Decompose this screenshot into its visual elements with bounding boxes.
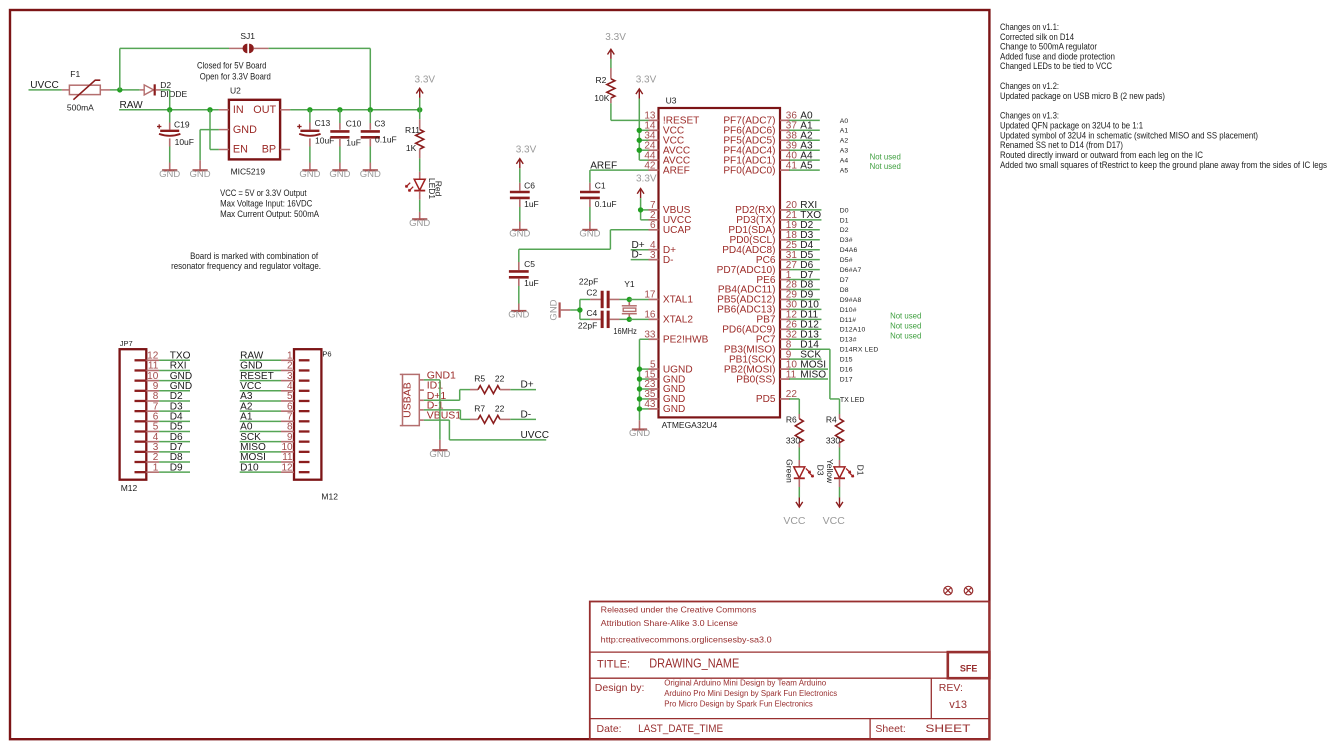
svg-text:Design by:: Design by: (595, 682, 645, 694)
U3 pin 22 PD5 (756, 389, 798, 405)
net label A4 on pin 40 (789, 150, 820, 161)
U3 pin 11 PB0(SS) (736, 369, 796, 385)
svg-text:C4: C4 (586, 308, 597, 318)
svg-text:D10: D10 (240, 462, 259, 473)
svg-text:500mA: 500mA (67, 102, 94, 112)
net label D5 on pin 31 (789, 250, 820, 261)
supply 3.3V above R11 (415, 74, 436, 110)
svg-text:D13#: D13# (840, 337, 857, 344)
svg-text:REV:: REV: (939, 682, 963, 694)
svg-text:Arduino Pro Mini Design by Spa: Arduino Pro Mini Design by Spark Fun Ele… (664, 689, 837, 698)
note closed/open for board voltage (197, 60, 271, 81)
svg-text:3.3V: 3.3V (605, 32, 626, 43)
svg-text:12: 12 (281, 462, 293, 473)
net label D6 on pin 27 (789, 260, 820, 271)
junction VBUS pin 7 (638, 207, 643, 212)
svg-text:VCC = 5V or 3.3V Output: VCC = 5V or 3.3V Output (220, 188, 307, 198)
svg-text:GND: GND (409, 218, 430, 229)
MCU U3 ATMEGA32U4 (659, 95, 781, 430)
svg-text:Changed LEDs to be tied to VCC: Changed LEDs to be tied to VCC (1000, 60, 1112, 71)
net label MISO on pin 11 (789, 369, 828, 380)
svg-text:Y1: Y1 (624, 279, 635, 289)
signal note D14RX LED (840, 347, 879, 354)
supply 3.3V above VCC pins (636, 74, 657, 98)
JP7 pin 11 net RXI (135, 361, 191, 372)
title text (597, 657, 739, 671)
wire XTAL2 to pin 16 (629, 318, 648, 320)
signal note D13# (840, 337, 857, 344)
ground U2 (190, 169, 211, 180)
JP7 pin 6 net D4 (135, 412, 191, 423)
net label RXI on pin 20 (789, 200, 821, 211)
svg-text:Attribution Share-Alike 3.0 Li: Attribution Share-Alike 3.0 License (601, 618, 738, 628)
U3 pin 32 PC7 (756, 329, 798, 345)
svg-text:D1: D1 (840, 217, 849, 224)
svg-text:Green: Green (784, 459, 794, 483)
U3 pin 8 PB3(MISO) (724, 339, 792, 355)
wire GND1 to ground (424, 380, 440, 450)
wire junction up to SJ1 row (120, 48, 229, 90)
svg-text:3: 3 (650, 250, 656, 261)
regulator U2 MIC5219 (219, 86, 290, 177)
svg-text:D-: D- (663, 255, 674, 266)
svg-text:GND: GND (159, 169, 180, 180)
svg-text:A5: A5 (840, 168, 849, 175)
wire VBUS1 to UVCC (424, 420, 546, 440)
P6 pin 6 net A2 (240, 401, 310, 412)
svg-text:PD5: PD5 (756, 394, 776, 405)
supply VCC below D3 (783, 498, 806, 527)
resistor R11 1K (405, 110, 424, 172)
svg-text:22: 22 (495, 374, 505, 384)
signal note D3# (840, 237, 853, 244)
P6 pin 10 net MISO (240, 442, 310, 453)
svg-text:AREF: AREF (663, 165, 690, 176)
USBAB pin D-1 (419, 399, 443, 411)
U3 pin 38 PF5(ADC5) (723, 130, 797, 146)
net label D11 on pin 12 (789, 310, 821, 321)
svg-text:1uF: 1uF (524, 199, 539, 209)
svg-text:C5: C5 (524, 259, 535, 269)
svg-text:U2: U2 (230, 86, 241, 96)
svg-text:D8: D8 (840, 287, 849, 294)
resistor R5 22 (470, 374, 510, 394)
U3 pin 16 XTAL2 (644, 310, 693, 326)
svg-text:Not used: Not used (870, 152, 901, 161)
svg-text:GND: GND (360, 169, 381, 180)
net label D8 on pin 28 (789, 280, 820, 291)
svg-text:A1: A1 (840, 128, 849, 135)
wire PD5 pin 22 to R6 (789, 399, 799, 414)
svg-text:Board is marked with combinati: Board is marked with combination of (190, 251, 318, 261)
svg-text:42: 42 (644, 160, 656, 171)
svg-text:ATMEGA32U4: ATMEGA32U4 (662, 420, 718, 430)
svg-text:D0: D0 (840, 207, 849, 214)
junction GND pin 23 (637, 386, 642, 391)
note Not used (870, 162, 901, 171)
junction F1/D2/SJ1 (117, 87, 122, 92)
svg-text:43: 43 (644, 399, 656, 410)
net label TXO on pin 21 (789, 210, 821, 221)
svg-text:USBAB: USBAB (402, 382, 414, 418)
signal note A0 (840, 118, 849, 125)
ground LED1 (409, 218, 430, 229)
wire PE2!HWB and GND pins to ground (640, 339, 649, 429)
svg-text:R7: R7 (474, 404, 485, 414)
title block (590, 602, 990, 740)
svg-text:Pro Micro Design by Spark Fun: Pro Micro Design by Spark Fun Electronic… (664, 700, 813, 709)
note Not used (870, 152, 901, 161)
wire XTAL1 to pin 17 (629, 298, 648, 300)
resistor R6 330 (786, 414, 803, 448)
wire F1 to junction (110, 89, 140, 91)
net label D14 on pin 8 (789, 339, 830, 350)
U3 pin 7 VBUS (649, 200, 691, 216)
P6 pin 9 net SCK (240, 432, 310, 443)
svg-text:1K: 1K (406, 143, 417, 153)
net label A0 on pin 36 (789, 111, 820, 122)
svg-text:C6: C6 (524, 180, 535, 190)
svg-text:D17: D17 (840, 376, 853, 383)
P6 pin 1 net RAW (240, 351, 310, 362)
ground C1 (579, 229, 600, 240)
svg-text:SHEET: SHEET (925, 723, 970, 735)
svg-text:GND: GND (299, 169, 320, 180)
junction VCC pin 14 (637, 128, 642, 133)
svg-text:17: 17 (644, 290, 656, 301)
svg-text:10uF: 10uF (175, 137, 194, 147)
svg-text:EN: EN (233, 144, 248, 156)
svg-text:C10: C10 (346, 118, 362, 128)
JP7 pin 5 net D5 (135, 422, 191, 433)
U3 pin 36 PF7(ADC7) (723, 111, 797, 127)
USB connector USBAB (400, 374, 420, 425)
license text (601, 604, 772, 644)
capacitor C19 10uF (157, 110, 194, 170)
U3 pin 39 PF4(ADC4) (723, 140, 797, 156)
U3 pin 3 D- (649, 250, 674, 266)
note revision changes list (1000, 21, 1327, 170)
wire gnd to C2/C4 left plates (570, 299, 590, 319)
svg-text:PE2!HWB: PE2!HWB (663, 334, 709, 345)
svg-text:C1: C1 (595, 180, 606, 190)
net label SCK on pin 9 (789, 349, 821, 360)
schematic frame border (10, 10, 989, 739)
svg-text:22pF: 22pF (579, 277, 598, 287)
svg-text:22pF: 22pF (578, 321, 597, 331)
junction XTAL1/Y1 (627, 297, 632, 302)
svg-text:C3: C3 (374, 118, 385, 128)
USBAB pin ID1 (419, 380, 443, 392)
ground C3 (360, 169, 381, 180)
svg-text:TX LED: TX LED (840, 397, 865, 404)
net label D2 on pin 19 (789, 220, 820, 231)
junction VCC pin 34 (637, 138, 642, 143)
note Not used (890, 311, 921, 320)
svg-text:D16: D16 (840, 367, 853, 374)
svg-text:330: 330 (826, 435, 840, 445)
LED LED1 Red (406, 172, 444, 219)
JP7 pin 3 net D7 (135, 442, 191, 453)
svg-text:D15: D15 (840, 357, 853, 364)
U3 pin 6 UCAP (649, 220, 692, 236)
signal note D15 (840, 357, 853, 364)
wire D14 to TX LED (830, 349, 840, 414)
connector P6 M12 (294, 349, 338, 501)
net label D- at pin 3 (631, 250, 649, 261)
U3 pin 21 PD3(TX) (736, 210, 797, 226)
svg-text:D1: D1 (856, 465, 866, 476)
net label A3 on pin 39 (789, 140, 820, 151)
svg-text:A3: A3 (840, 148, 849, 155)
svg-text:GND: GND (549, 299, 560, 320)
U3 pin 30 PB6(ADC13) (717, 300, 797, 316)
svg-text:Not used: Not used (890, 331, 921, 340)
svg-text:330: 330 (786, 435, 800, 445)
net label UVCC at USB (521, 430, 550, 441)
svg-text:0.1uF: 0.1uF (595, 199, 617, 209)
svg-text:VCC: VCC (783, 515, 806, 527)
note Not used (890, 331, 921, 340)
wire SJ1 to 3.3V rail drop (269, 48, 371, 109)
junction OUT/C13 (307, 107, 312, 112)
svg-text:3.3V: 3.3V (516, 144, 537, 155)
net label MOSI on pin 10 (789, 359, 828, 370)
svg-text:PB0(SS): PB0(SS) (736, 374, 775, 385)
note regulator output (220, 188, 319, 219)
signal note D12A10 (840, 327, 866, 334)
signal note D17 (840, 376, 853, 383)
supply 3.3V above VBUS (636, 174, 657, 199)
svg-text:D6#A7: D6#A7 (840, 267, 862, 274)
signal note D7 (840, 277, 849, 284)
U3 pin 33 PE2!HWB (644, 329, 708, 345)
svg-text:33: 33 (644, 329, 656, 340)
svg-text:D+: D+ (521, 380, 534, 391)
P6 pin 3 net RESET (240, 371, 310, 382)
svg-text:MIC5219: MIC5219 (231, 166, 266, 176)
svg-text:D2: D2 (840, 227, 849, 234)
note Not used (890, 321, 921, 330)
svg-text:16: 16 (644, 310, 656, 321)
capacitor C3 0.1uF (361, 110, 397, 170)
U3 pin 41 PF0(ADC0) (723, 160, 797, 176)
P6 pin 2 net GND (240, 361, 310, 372)
svg-text:DRAWING_NAME: DRAWING_NAME (649, 657, 739, 671)
svg-text:P6: P6 (322, 350, 331, 359)
wire UCAP to C5 (519, 230, 649, 262)
U3 pin 34 VCC (644, 130, 684, 146)
capacitor C1 0.1uF (580, 180, 617, 229)
svg-text:D12A10: D12A10 (840, 327, 866, 334)
U3 pin 31 PC6 (756, 250, 798, 266)
svg-text:R11: R11 (405, 125, 420, 135)
svg-text:OUT: OUT (253, 104, 276, 116)
U3 pin 24 AVCC (644, 140, 690, 156)
svg-text:SFE: SFE (960, 663, 978, 673)
registration mark left (944, 586, 953, 595)
net label AREF (590, 160, 617, 171)
svg-text:3.3V: 3.3V (636, 174, 657, 185)
junction GND pin 35 (637, 396, 642, 401)
wire R2 to !RESET pin 13 (611, 119, 649, 121)
registration mark right (964, 586, 973, 595)
svg-text:D3#: D3# (840, 237, 853, 244)
signal note D9#A8 (840, 297, 862, 304)
ground C13 (299, 169, 320, 180)
U3 pin 1 PE6 (756, 270, 791, 286)
svg-text:C13: C13 (315, 118, 331, 128)
net label A2 on pin 38 (789, 130, 820, 141)
svg-text:Open for 3.3V Board: Open for 3.3V Board (200, 71, 271, 81)
capacitor C10 1uF (330, 110, 361, 170)
net label D4 on pin 25 (789, 240, 820, 251)
ground crystal caps (rotated) (549, 299, 571, 320)
svg-text:A0: A0 (840, 118, 849, 125)
P6 pin 7 net A1 (240, 412, 310, 423)
net label D10 on pin 30 (789, 300, 821, 311)
U3 pin 17 XTAL1 (644, 290, 693, 306)
supply 3.3V above C6 (516, 144, 537, 168)
svg-text:M12: M12 (121, 483, 138, 493)
JP7 pin 8 net D2 (135, 391, 191, 402)
signal note D16 (840, 367, 853, 374)
USBAB pin GND1 (419, 369, 456, 381)
svg-text:Not used: Not used (890, 311, 921, 320)
svg-text:A4: A4 (840, 158, 849, 165)
U3 pin 42 AREF (644, 160, 689, 176)
USBAB pin VBUS1 (419, 410, 461, 422)
net label D+ (510, 380, 536, 391)
svg-text:GND: GND (429, 449, 450, 460)
ground USB (429, 449, 450, 460)
U3 pin 10 PB2(MOSI) (724, 359, 797, 375)
net label D+ at pin 4 (631, 240, 649, 251)
svg-text:R5: R5 (474, 374, 485, 384)
svg-text:UVCC: UVCC (521, 430, 550, 441)
junction gnd/C2C4 (577, 307, 582, 312)
solder jumper SJ1 (229, 31, 269, 53)
svg-text:Sheet:: Sheet: (875, 723, 905, 735)
svg-text:GND: GND (508, 310, 529, 321)
svg-text:6: 6 (650, 220, 656, 231)
svg-text:UCAP: UCAP (663, 225, 691, 236)
signal note D5# (840, 257, 853, 264)
svg-text:R6: R6 (786, 415, 797, 425)
junction XTAL2/Y1 (627, 317, 632, 322)
svg-text:resonator frequency and regula: resonator frequency and regulator voltag… (171, 261, 321, 271)
svg-text:http:creativecommons.orglicens: http:creativecommons.orglicensesby-sa3.0 (601, 634, 772, 644)
svg-text:MISO: MISO (800, 369, 826, 380)
U3 pin 29 PB5(ADC12) (717, 290, 797, 306)
signal note A4 (840, 158, 849, 165)
diode D2 (140, 80, 188, 99)
U3 pin 26 PD6(ADC9) (722, 320, 797, 336)
svg-text:GND: GND (579, 229, 600, 240)
signal note A3 (840, 148, 849, 155)
svg-text:Added two small squares of tRe: Added two small squares of tRestrict to … (1000, 159, 1327, 170)
P6 pin 4 net VCC (240, 381, 310, 392)
junction RAW/C19 (167, 107, 172, 112)
svg-text:JP7: JP7 (120, 339, 133, 348)
supply 3.3V above R2 (605, 32, 626, 59)
U3 pin 23 GND (644, 379, 685, 395)
U3 pin 25 PD4(ADC8) (722, 240, 797, 256)
capacitor C2 22pF (579, 277, 629, 309)
P6 pin 8 net A0 (240, 422, 310, 433)
U3 pin 14 VCC (644, 121, 684, 137)
wire D-1 to R7 (424, 410, 470, 420)
svg-text:LAST_DATE_TIME: LAST_DATE_TIME (638, 723, 723, 735)
svg-text:Max Voltage Input: 16VDC: Max Voltage Input: 16VDC (220, 198, 313, 208)
title block SFE cell (948, 652, 990, 678)
crystal Y1 16MHz (613, 279, 636, 336)
net label A1 on pin 37 (789, 121, 820, 132)
ground C5 (508, 310, 529, 321)
svg-text:R2: R2 (596, 75, 607, 85)
svg-text:D3: D3 (816, 465, 826, 476)
svg-text:XTAL1: XTAL1 (663, 295, 693, 306)
U3 pin 20 PD2(RX) (735, 200, 797, 216)
svg-text:M12: M12 (321, 491, 338, 501)
svg-text:1uF: 1uF (346, 137, 361, 147)
signal note D4A6 (840, 247, 858, 254)
junction GND pin 15 (637, 376, 642, 381)
wire RAW to U2 IN (119, 109, 219, 111)
wire EN tie to RAW (210, 110, 219, 150)
svg-text:GND: GND (663, 404, 685, 415)
U3 pin 15 GND (644, 369, 685, 385)
U3 pin 4 D+ (649, 240, 677, 256)
ground C6 (509, 229, 530, 240)
P6 pin 11 net MOSI (240, 452, 310, 463)
svg-text:GND: GND (509, 229, 530, 240)
resistor R2 10K (594, 59, 615, 120)
fuse F1 500mA (62, 69, 110, 113)
capacitor C13 10uF (297, 110, 334, 170)
U3 pin 40 PF1(ADC1) (723, 150, 797, 166)
junction AVCC pin 24 (637, 148, 642, 153)
U3 pin 13 !RESET (644, 111, 699, 127)
svg-text:IN: IN (233, 104, 244, 116)
svg-text:Released under the Creative Co: Released under the Creative Commons (601, 604, 757, 614)
svg-text:PF0(ADC0): PF0(ADC0) (723, 165, 775, 176)
svg-text:D11#: D11# (840, 317, 857, 324)
svg-text:3.3V: 3.3V (415, 74, 436, 85)
net label D3 on pin 18 (789, 230, 820, 241)
svg-text:A2: A2 (840, 138, 849, 145)
svg-text:D9#A8: D9#A8 (840, 297, 862, 304)
signal note D8 (840, 287, 849, 294)
wire UVCC to F1 (29, 89, 62, 91)
junction RAW/EN (207, 107, 212, 112)
net label D7 on pin 1 (789, 270, 820, 281)
capacitor C4 22pF (578, 308, 629, 331)
svg-text:SJ1: SJ1 (240, 31, 255, 41)
signal note D0 (840, 207, 849, 214)
svg-text:D10#: D10# (840, 307, 857, 314)
net label D12 on pin 26 (789, 320, 821, 331)
net label D13 on pin 32 (789, 329, 821, 340)
junction OUT/R11/3.3V (417, 107, 422, 112)
svg-text:VCC: VCC (823, 515, 846, 527)
U3 pin 27 PD7(ADC10) (717, 260, 798, 276)
svg-text:XTAL2: XTAL2 (663, 315, 693, 326)
capacitor C6 1uF (510, 168, 539, 229)
net note TX LED (840, 397, 865, 404)
JP7 pin 9 net GND (135, 381, 193, 392)
svg-text:U3: U3 (666, 95, 677, 105)
